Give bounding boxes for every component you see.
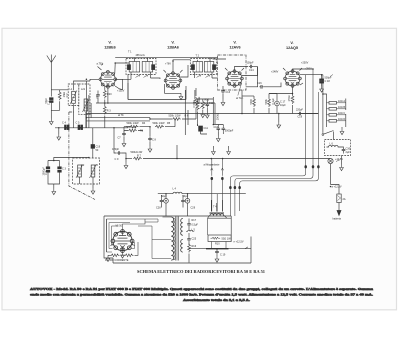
wire audio bus long	[143, 158, 330, 160]
svg-text:R17: R17	[192, 219, 197, 222]
transformer T2	[190, 55, 216, 78]
svg-text:T 2: T 2	[196, 55, 200, 58]
wire V4 plate right	[293, 69, 314, 71]
svg-text:50µF: 50µF	[161, 195, 167, 198]
resistor R1	[124, 126, 144, 133]
svg-text:+76V: +76V	[165, 63, 171, 66]
tube V1 12BE6	[99, 70, 117, 88]
wire T1 secondary to V2	[128, 75, 160, 100]
wire ladder top	[323, 94, 342, 129]
capacitor C14	[235, 62, 258, 72]
resistor R15 cathode	[288, 86, 294, 114]
svg-text:C 9: C 9	[115, 158, 120, 161]
wire loop top	[128, 83, 186, 100]
capacitor C7	[118, 127, 126, 141]
potentiometer R10	[200, 99, 210, 112]
resistor R5	[153, 119, 176, 128]
svg-text:C11: C11	[204, 127, 209, 130]
wire V1 grid left	[86, 79, 99, 81]
coil L21 box	[79, 84, 90, 115]
svg-text:50Ω 1W: 50Ω 1W	[222, 238, 232, 241]
svg-text:a +12,5V: a +12,5V	[332, 185, 342, 188]
capacitor C9	[112, 148, 126, 161]
wire stub right	[229, 247, 252, 249]
svg-text:10µF: 10µF	[280, 104, 286, 107]
svg-text:C14: C14	[249, 69, 254, 72]
wire V2 plate	[173, 60, 190, 73]
wire det top	[198, 97, 214, 125]
resistor filter 1	[105, 254, 129, 262]
wire tuning bus	[55, 127, 128, 129]
resistor R14	[265, 94, 293, 114]
svg-text:e +12,5V: e +12,5V	[234, 241, 244, 244]
vertical resistor R22	[195, 88, 201, 119]
ground V2	[179, 94, 183, 100]
svg-text:170Ω: 170Ω	[288, 95, 291, 101]
ground arrows onto bus	[212, 146, 214, 149]
svg-text:12BA6: 12BA6	[167, 46, 179, 50]
wire bus B long	[86, 90, 318, 114]
resistor R20	[103, 86, 112, 103]
wire L1 to grid	[51, 81, 86, 90]
wire left drops to pins	[212, 159, 223, 176]
transformer T4 secondary	[181, 219, 183, 253]
dash-dot gang link	[69, 112, 95, 200]
antenna	[47, 55, 56, 63]
svg-text:C19: C19	[298, 116, 303, 119]
svg-text:465 kc/s: 465 kc/s	[136, 54, 146, 57]
svg-text:AUTOVOX - Modd. RA 50 e RA 51: AUTOVOX - Modd. RA 50 e RA 51 per FIAT 6…	[30, 287, 373, 291]
wire L1 bottom	[74, 104, 86, 128]
resistor R6	[150, 115, 196, 121]
wire V1 right pin	[115, 79, 122, 90]
fuse F1	[337, 191, 346, 211]
resistor R2	[51, 90, 69, 111]
svg-text:10Ω D: 10Ω D	[338, 118, 345, 121]
svg-text:470pF: 470pF	[112, 148, 120, 151]
svg-text:V.: V.	[108, 41, 111, 45]
ground ladder	[340, 129, 344, 135]
tube label V3	[229, 41, 240, 50]
resistor filter 2	[125, 254, 134, 257]
wire feed to C9	[114, 128, 117, 153]
wires T4 left	[138, 217, 171, 259]
wire lamp down	[331, 164, 340, 191]
wire V4 screen right	[300, 74, 323, 76]
svg-text:R 7: R 7	[137, 154, 142, 157]
svg-text:+250V: +250V	[301, 62, 309, 65]
wire drop R6 to bus	[176, 145, 178, 159]
svg-text:C 4: C 4	[62, 122, 67, 125]
pin marks V1	[98, 64, 104, 71]
svg-text:R 3: R 3	[107, 110, 112, 113]
capacitor C16b on bus	[296, 109, 304, 119]
wire vertical left rails	[86, 81, 91, 128]
connector pins lower	[229, 186, 231, 189]
bus bar bottom	[206, 248, 229, 250]
svg-text:V.: V.	[171, 41, 174, 45]
svg-text:+12,5V: +12,5V	[335, 158, 343, 161]
svg-text:C 8: C 8	[152, 139, 157, 142]
capacitor C13 under V3	[221, 86, 230, 100]
ground osc	[53, 184, 55, 189]
svg-text:100pF: 100pF	[247, 62, 255, 65]
svg-text:V5 50: V5 50	[116, 225, 123, 228]
power unit outline	[104, 216, 251, 263]
coil L1 box	[68, 84, 79, 106]
wire T1 leads	[115, 58, 150, 80]
choke L6 box	[325, 140, 351, 156]
right rails	[322, 75, 324, 133]
wire V1 cathode down	[107, 86, 109, 103]
electrolytic C17	[269, 94, 286, 114]
resistor R9	[193, 99, 199, 126]
capacitor C2	[43, 161, 54, 185]
wire T2 leads	[195, 58, 213, 78]
svg-text:C 1: C 1	[48, 101, 51, 106]
svg-text:C 3: C 3	[62, 168, 67, 171]
dash-dot box V3	[218, 55, 247, 90]
svg-text:500k 1/2W: 500k 1/2W	[127, 122, 140, 125]
resistor R7	[126, 151, 143, 160]
svg-text:+102V: +102V	[117, 90, 125, 93]
svg-text:V.: V.	[290, 41, 293, 45]
svg-text:2A: 2A	[343, 198, 346, 201]
svg-text:2µF: 2µF	[346, 151, 351, 154]
wire lower pins into unit	[230, 190, 239, 217]
svg-text:0,5µF: 0,5µF	[192, 224, 199, 227]
svg-text:V.: V.	[233, 41, 236, 45]
resistor R13	[242, 96, 255, 114]
ground antenna	[49, 119, 53, 125]
wire bus to rails	[302, 113, 318, 115]
svg-text:R 2: R 2	[66, 93, 69, 98]
svg-text:R16: R16	[192, 245, 197, 248]
svg-text:C16: C16	[257, 82, 262, 85]
arrowheads up	[211, 168, 224, 170]
svg-text:C25: C25	[192, 238, 197, 241]
svg-text:500k 1/2W: 500k 1/2W	[153, 122, 166, 125]
capacitor C10 pair	[214, 125, 221, 136]
wire avc bus 1	[96, 103, 215, 124]
tube label V2	[167, 41, 179, 50]
svg-text:10Ω B: 10Ω B	[338, 106, 345, 109]
choke T4 top horizontal	[210, 200, 225, 216]
wire bus C	[86, 110, 188, 125]
transformer T4 core	[176, 217, 179, 261]
ground C18	[320, 86, 324, 92]
svg-text:5000: 5000	[250, 98, 253, 104]
capacitor C6 below V1	[96, 91, 100, 104]
capacitor C19 bottom	[215, 249, 226, 257]
tube V4 12AQ5	[284, 70, 302, 88]
svg-text:Assorbimento totale da 3,1 a 3: Assorbimento totale da 3,1 a 3,5 A.	[183, 298, 250, 302]
wire left pins into unit	[212, 180, 223, 212]
svg-text:150kΩ: 150kΩ	[217, 113, 220, 120]
svg-text:C10: C10	[214, 126, 219, 129]
capacitor C1	[45, 97, 53, 105]
wire cable run 3	[240, 168, 319, 186]
tube label V4	[286, 41, 298, 50]
wire T1 top bus	[115, 57, 217, 59]
switch S1	[322, 131, 334, 140]
capacitor C4	[62, 122, 69, 130]
svg-text:L21: L21	[81, 88, 86, 91]
wire det bottom	[185, 90, 223, 135]
capacitor C8	[148, 127, 156, 146]
svg-text:500k: 500k	[265, 98, 268, 104]
connector pins right	[305, 165, 307, 168]
ground unit	[215, 256, 219, 262]
svg-text:SCHEMA ELETTRICO DEI RADIORICE: SCHEMA ELETTRICO DEI RADIORICEVITORI RA …	[137, 270, 265, 274]
svg-text:T 1: T 1	[128, 51, 132, 54]
svg-text:12BE6: 12BE6	[104, 46, 116, 50]
choke L4	[173, 188, 183, 194]
svg-text:C 2: C 2	[45, 171, 48, 176]
capacitor C5	[76, 122, 83, 130]
transformer T4 primary	[171, 217, 175, 260]
svg-text:C 18: C 18	[325, 80, 331, 83]
pilot lamp	[328, 158, 343, 164]
ground C9R7	[125, 159, 127, 163]
svg-text:C13: C13	[226, 91, 231, 94]
grounds V5 row	[106, 255, 110, 261]
svg-text:220pF: 220pF	[296, 109, 304, 112]
wire cable run 2	[235, 168, 313, 186]
svg-text:C28: C28	[156, 207, 161, 210]
resistor R3	[103, 103, 111, 128]
wire cable run 1	[230, 168, 305, 186]
transformer T1	[126, 51, 156, 78]
component stack right of T4	[186, 219, 198, 263]
wire V3 out right	[242, 67, 258, 76]
wire V2 screen	[180, 65, 188, 77]
svg-text:10Ω C: 10Ω C	[338, 112, 345, 115]
label m.TLF	[236, 83, 244, 101]
tube V3 12AV6	[226, 70, 244, 88]
svg-text:+248V: +248V	[271, 71, 279, 74]
svg-text:C 5: C 5	[76, 122, 81, 125]
wire antenna lead	[50, 63, 52, 97]
svg-text:50µF: 50µF	[183, 195, 189, 198]
wire osc grounds	[92, 177, 94, 188]
capacitor C19 series	[91, 128, 101, 158]
wire V1 plate up	[115, 63, 129, 74]
svg-text:360Ω 1W: 360Ω 1W	[126, 126, 137, 129]
tube V5	[111, 225, 134, 253]
wire V3 plate bus	[246, 67, 258, 87]
svg-text:C 19: C 19	[220, 254, 226, 257]
wire T2 to V3	[212, 59, 226, 78]
ground tuning bus	[58, 128, 60, 134]
connector pins left	[211, 177, 213, 180]
ground big bus	[278, 114, 280, 123]
wire unit internals left loops	[107, 219, 159, 252]
wires around V5	[108, 219, 158, 255]
svg-text:C29: C29	[191, 207, 196, 210]
wire B+ filter line	[158, 193, 246, 195]
svg-text:10Ω A: 10Ω A	[338, 100, 345, 103]
oscillator box L2 L3	[73, 158, 100, 184]
tube label V1	[104, 41, 116, 50]
svg-text:0,5MΩ: 0,5MΩ	[193, 100, 196, 108]
svg-text:12AQ5: 12AQ5	[286, 46, 298, 50]
svg-text:batteria: batteria	[333, 218, 342, 221]
svg-text:R10: R10	[215, 243, 220, 246]
svg-text:a.TEL: a.TEL	[97, 63, 104, 66]
ground lamp branch	[341, 156, 343, 165]
svg-text:5000pF: 5000pF	[225, 130, 234, 133]
svg-text:al TF.: al TF.	[118, 114, 124, 117]
battery arrow	[337, 211, 341, 216]
svg-text:onde medie con sintonia a perm: onde medie con sintonia a permeabilità v…	[30, 292, 373, 296]
tube V2 12BA6	[164, 72, 182, 90]
capacitor C18 blob	[320, 75, 333, 87]
capacitor C16 series	[257, 82, 281, 89]
capacitor C3	[54, 161, 67, 185]
capacitor C12	[206, 99, 214, 112]
wire winding to box	[208, 216, 232, 236]
svg-text:al TLF.: al TLF.	[236, 97, 244, 100]
wire B+ rails down	[306, 69, 319, 165]
electrolytic C29	[181, 194, 195, 216]
electrolytic C28	[156, 194, 168, 216]
black blob electrolytic	[198, 124, 209, 134]
wire below C1	[50, 103, 52, 119]
svg-text:12AV6: 12AV6	[229, 46, 240, 50]
vibrator box R15	[208, 235, 231, 246]
svg-text:500k 1/2W: 500k 1/2W	[169, 115, 182, 118]
resistor R4	[124, 122, 150, 128]
resistor ladder box	[327, 99, 346, 128]
wire osc top	[48, 158, 89, 161]
wire V2 under loop	[165, 84, 181, 94]
